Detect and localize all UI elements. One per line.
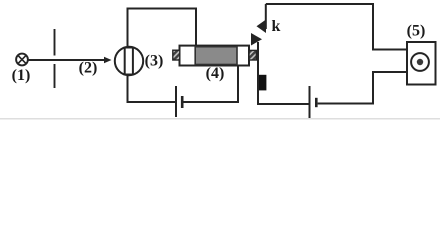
wire loop2 top: [266, 4, 407, 50]
wire loop1 bottom right: [184, 66, 239, 102]
svg-text:(2): (2): [79, 60, 98, 77]
scan smudge bottom edge: [0, 118, 440, 120]
transistor k collector wire: [265, 4, 267, 29]
photo-detector (3): [115, 47, 143, 75]
light beam arrow (2): [28, 57, 112, 64]
svg-text:k: k: [272, 18, 281, 35]
earphone (5): [407, 42, 436, 85]
battery B2: [310, 86, 317, 118]
wire loop1 bottom left: [128, 75, 176, 102]
transistor k arrow upper: [257, 20, 267, 34]
wire loop2 bottom right: [318, 72, 407, 104]
transistor k arrow lower: [251, 33, 262, 46]
battery B1: [176, 86, 182, 117]
slit: [54, 29, 56, 88]
wire loop1 top: [128, 9, 197, 47]
emitter contact: [259, 75, 266, 91]
photocell tube (4): [173, 46, 257, 66]
lamp (1): [16, 54, 28, 66]
svg-text:(1): (1): [12, 67, 31, 84]
svg-text:(4): (4): [206, 65, 225, 82]
svg-text:(5): (5): [407, 23, 426, 40]
emitter wire: [258, 42, 309, 104]
svg-text:(3): (3): [145, 53, 164, 70]
